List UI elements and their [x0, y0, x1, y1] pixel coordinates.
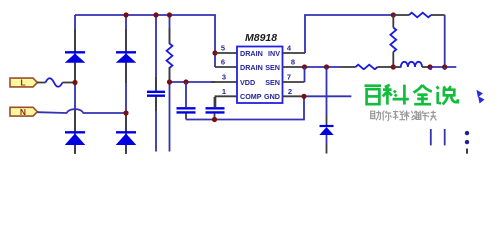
pin 8 lead [283, 66, 305, 68]
wire: output cap legs (partly hidden by watermark) [430, 67, 432, 145]
diode D5 freewheel [319, 67, 333, 154]
svg-text:1: 1 [222, 87, 226, 96]
node: pin5/6 tie dot [212, 50, 217, 55]
connector stub dots bottom-right [465, 131, 469, 135]
connector stub lead [466, 149, 468, 154]
wire: SEN net [305, 66, 341, 68]
resistor R2 divider lower (vertical) [390, 15, 396, 67]
char ZHU [371, 111, 375, 118]
wire: bulk cap branch x=156 [155, 15, 157, 91]
svg-text:6: 6 [221, 58, 225, 67]
watermark backing box [352, 70, 492, 129]
capacitor C3 on COMP [206, 97, 225, 120]
node: rail dots [123, 12, 128, 17]
pin 6 lead [215, 66, 237, 68]
node: SEN dots [302, 64, 307, 69]
char KE [385, 85, 390, 87]
svg-text:2: 2 [288, 87, 292, 96]
wire: bridge left leg x=75 [74, 15, 76, 153]
node: R2 bottom dot [391, 64, 396, 69]
op-amp U1 M8918 body [237, 47, 283, 104]
char JIE [416, 111, 417, 113]
inductor L1 [393, 62, 430, 67]
wire: INV net up and over to divider [305, 15, 393, 53]
wire: top-left HV rail [75, 15, 215, 67]
node: bus dot at C3 [212, 117, 217, 122]
pin 3 lead [211, 81, 237, 83]
svg-text:3: 3 [222, 73, 226, 82]
watermark subtitle strokes (hand-drawn small CJK) [370, 111, 437, 121]
wire: N line with hop over left leg [37, 109, 126, 113]
diode D2 top-right of bridge [116, 29, 137, 83]
node: L junction dot [72, 80, 77, 85]
svg-text:GND: GND [264, 92, 280, 101]
wire: GND net from pin2 [305, 95, 351, 97]
svg-text:SEN: SEN [265, 78, 280, 87]
char QUAN [414, 85, 423, 93]
diode D1 top-left of bridge [65, 29, 86, 82]
capacitor C2 on VDD [177, 82, 196, 120]
svg-text:N: N [20, 107, 26, 117]
char QING [393, 111, 398, 113]
diode D4 bottom-right of bridge [116, 115, 137, 154]
net label N (flag) [10, 107, 37, 117]
char JUE [428, 112, 429, 113]
node: VDD junction dots [167, 79, 172, 84]
svg-text:DRAIN: DRAIN [240, 49, 263, 58]
svg-text:VDD: VDD [240, 78, 255, 87]
svg-text:4: 4 [287, 44, 292, 53]
capacitor C1 bulk [147, 77, 165, 111]
svg-text:M8918: M8918 [245, 32, 277, 44]
watermark title strokes (hand-drawn CJK) [365, 85, 458, 105]
wire: output node [430, 66, 456, 68]
wire: small-signal ground bus to pin2 [186, 96, 304, 119]
svg-text:8: 8 [291, 58, 295, 67]
char NI [382, 111, 384, 114]
node: pin2 dot [301, 94, 306, 99]
svg-text:INV: INV [268, 49, 280, 58]
pin 1 lead [215, 96, 237, 107]
node: output dots [427, 64, 432, 69]
resistor R4 sense (horizontal) [340, 65, 393, 70]
pin 2 lead [283, 95, 306, 97]
resistor R3 top feedback (horizontal) [393, 13, 444, 18]
svg-text:SEN: SEN [265, 63, 280, 72]
svg-text:COMP: COMP [240, 92, 262, 101]
node: N junction dot [123, 110, 128, 115]
pin 4 lead [283, 52, 306, 54]
wire: bridge right leg x=126 [125, 15, 127, 153]
wire: startup resistor branch x=169.5 [169, 15, 171, 44]
svg-text:DRAIN: DRAIN [240, 63, 263, 72]
wire: right feedback drop [444, 15, 446, 67]
node: divider top dot [391, 12, 396, 17]
resistor R1 startup (vertical) [167, 28, 173, 81]
wire: VDD net from R1 to pin3 [170, 81, 216, 83]
svg-text:L: L [20, 78, 25, 88]
char BAI [365, 84, 382, 87]
diode D3 bottom-left of bridge [65, 110, 86, 155]
char SONG [406, 111, 408, 121]
net label L (flag) [10, 78, 37, 88]
watermark corner glyph [477, 91, 484, 103]
svg-text:7: 7 [287, 73, 291, 82]
fuse F1 on L line [37, 78, 75, 87]
char SHUO [437, 86, 439, 89]
wire: pin7 tie-up [304, 67, 306, 82]
pin 7 lead [283, 81, 305, 83]
pin 5 lead [215, 52, 237, 54]
svg-text:5: 5 [221, 44, 225, 53]
